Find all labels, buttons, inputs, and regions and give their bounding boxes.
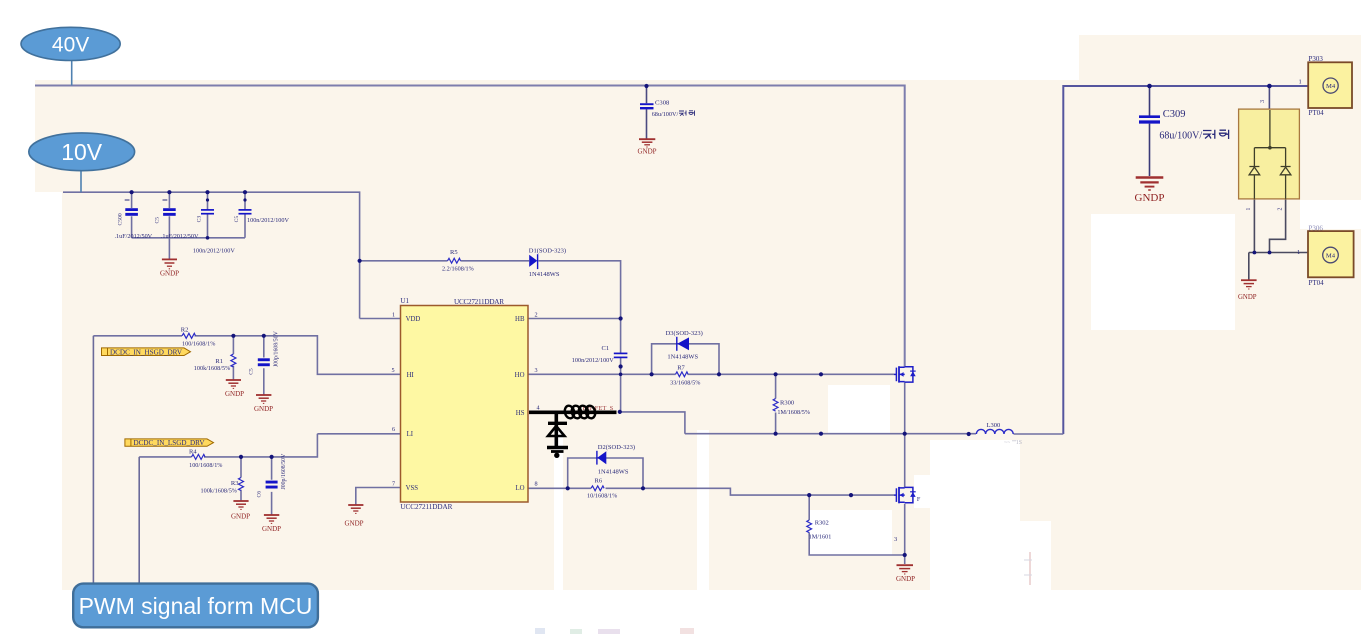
svg-text:P303: P303 bbox=[1309, 55, 1324, 63]
svg-text:100n/2012/100V: 100n/2012/100V bbox=[247, 217, 289, 224]
svg-text:D1(SOD-323): D1(SOD-323) bbox=[529, 247, 566, 254]
svg-text:R6: R6 bbox=[595, 477, 603, 484]
diode D3 1N4148WS bbox=[666, 330, 703, 360]
wire PWM vertical 2 bbox=[138, 457, 140, 584]
wire R302 leg bbox=[809, 495, 905, 555]
wire output top rail right bbox=[1063, 86, 1308, 434]
wire R1 leg bbox=[232, 336, 234, 380]
svg-text:HB: HB bbox=[515, 316, 525, 323]
svg-text:UCC27211DDAR: UCC27211DDAR bbox=[400, 503, 452, 511]
wire VSS stub bbox=[356, 488, 402, 506]
ground GNDP C6 bbox=[262, 515, 281, 533]
svg-text:C500: C500 bbox=[118, 213, 124, 225]
svg-text:F: F bbox=[917, 496, 921, 503]
svg-text:R5: R5 bbox=[450, 249, 458, 256]
svg-text:GNDP: GNDP bbox=[638, 148, 657, 156]
wire bridge gnd stem bbox=[1248, 253, 1250, 281]
wire VDD stub bbox=[360, 318, 402, 320]
svg-text:100k/1608/5%: 100k/1608/5% bbox=[194, 365, 230, 372]
wire HO net bbox=[528, 373, 894, 375]
svg-text:PT04: PT04 bbox=[1309, 109, 1325, 117]
svg-text:100k/1608/5%: 100k/1608/5% bbox=[201, 488, 237, 495]
wire PWM vertical 1 bbox=[92, 336, 94, 584]
svg-text:PWM signal form MCU: PWM signal form MCU bbox=[79, 593, 313, 619]
resistor R4 bbox=[189, 448, 222, 469]
svg-text:GNDP: GNDP bbox=[1238, 294, 1257, 301]
erased remnant marks bbox=[535, 552, 1032, 634]
svg-text:J00p/1608/50V: J00p/1608/50V bbox=[274, 330, 280, 367]
capacitor C1 bbox=[572, 345, 628, 364]
svg-text:DCDC_IN_LSGD_DRV: DCDC_IN_LSGD_DRV bbox=[134, 440, 205, 447]
node 40V power bubble bbox=[21, 27, 120, 85]
annotation black body-diode sketch bbox=[529, 405, 617, 458]
wire HS net bbox=[620, 412, 1063, 434]
svg-text:L300: L300 bbox=[987, 422, 1001, 429]
svg-text:GNDP: GNDP bbox=[225, 390, 244, 398]
svg-text:3: 3 bbox=[894, 536, 897, 543]
svg-text:GNDP: GNDP bbox=[231, 513, 250, 521]
svg-text:2.2/1608/1%: 2.2/1608/1% bbox=[442, 266, 474, 273]
resistor R300 bbox=[773, 399, 810, 416]
svg-text:DCDC_IN_HSGD_DRV: DCDC_IN_HSGD_DRV bbox=[110, 349, 182, 356]
ground GNDP cap bank bbox=[160, 259, 179, 277]
svg-text:100/1608/1%: 100/1608/1% bbox=[182, 340, 215, 347]
svg-text:68u/100V/: 68u/100V/ bbox=[652, 111, 679, 118]
ground GNDP bridge bbox=[1238, 280, 1257, 301]
capacitor C308 bbox=[640, 100, 695, 118]
svg-text:7: 7 bbox=[392, 481, 395, 488]
wire cap bank bottom rail bbox=[132, 237, 245, 239]
resistor R3 bbox=[201, 478, 244, 495]
svg-text:5: 5 bbox=[392, 367, 395, 374]
wire HI routing bbox=[93, 336, 401, 375]
svg-text:3: 3 bbox=[535, 367, 538, 374]
wire cap bank gnd stem bbox=[168, 238, 170, 259]
ground GNDP lower FET bbox=[896, 565, 915, 583]
svg-text:UCC27211DDAR: UCC27211DDAR bbox=[454, 298, 504, 306]
svg-text:1: 1 bbox=[1246, 208, 1252, 211]
node 10V power bubble bbox=[29, 133, 135, 192]
svg-text:1N4148WS: 1N4148WS bbox=[598, 468, 629, 475]
svg-text:100n/2012/100V: 100n/2012/100V bbox=[193, 248, 235, 255]
wire C1 vertical bbox=[620, 319, 622, 412]
wire PT04 lower pin bbox=[1249, 252, 1308, 254]
svg-text:C5: C5 bbox=[234, 216, 240, 223]
svg-text:M4: M4 bbox=[1326, 253, 1336, 260]
wire bridge bottom pins bbox=[1254, 199, 1285, 253]
wire LO net bbox=[528, 488, 894, 495]
svg-text:GNDP: GNDP bbox=[345, 520, 364, 528]
resistor R7 bbox=[670, 364, 700, 386]
wire C6 leg bbox=[271, 457, 273, 515]
net label DCDC_IN_LSGD_DRV bbox=[125, 439, 214, 447]
svg-text:40V: 40V bbox=[52, 33, 89, 56]
svg-text:GNDP: GNDP bbox=[896, 575, 915, 583]
svg-text:1M/1601: 1M/1601 bbox=[809, 534, 832, 541]
svg-text:6: 6 bbox=[392, 426, 395, 433]
capacitor C501 bbox=[155, 200, 199, 240]
diode pack D300 bridge box bbox=[1239, 100, 1300, 211]
svg-text:C5: C5 bbox=[249, 368, 255, 375]
svg-text:1M/1608/5%: 1M/1608/5% bbox=[777, 409, 810, 416]
resistor R302 bbox=[807, 519, 832, 540]
svg-text:LO: LO bbox=[515, 485, 524, 492]
svg-text:1: 1 bbox=[392, 312, 395, 319]
wire D2 bypass loop bbox=[568, 458, 643, 488]
svg-text:J00p/1608/50V: J00p/1608/50V bbox=[281, 453, 287, 490]
svg-text:8: 8 bbox=[535, 481, 538, 488]
transistor Q upper MOSFET bbox=[894, 366, 916, 382]
wire C5 leg bbox=[263, 336, 265, 395]
svg-text:VDD: VDD bbox=[406, 316, 421, 323]
svg-text:10/1608/1%: 10/1608/1% bbox=[587, 492, 617, 499]
resistor R5 bbox=[442, 249, 474, 273]
wire cap bank stems bbox=[132, 192, 245, 238]
svg-text:C309: C309 bbox=[1163, 109, 1186, 120]
wire R3 leg bbox=[240, 457, 242, 501]
svg-text:GNDP: GNDP bbox=[160, 270, 179, 278]
wire 10V rail bbox=[63, 192, 360, 318]
ground GNDP R3 bbox=[231, 501, 250, 521]
resistor R1 bbox=[194, 354, 236, 372]
svg-text:D3(SOD-323): D3(SOD-323) bbox=[666, 330, 703, 337]
svg-text:C1: C1 bbox=[602, 345, 610, 352]
svg-text:C5: C5 bbox=[155, 217, 161, 224]
svg-text:2: 2 bbox=[1277, 208, 1283, 211]
svg-text:R3: R3 bbox=[231, 480, 239, 487]
capacitor C500 bbox=[115, 200, 153, 240]
svg-text:R7: R7 bbox=[677, 364, 685, 371]
svg-text:.1uF/2012/50V: .1uF/2012/50V bbox=[161, 233, 199, 240]
svg-text:P306: P306 bbox=[1309, 224, 1324, 232]
svg-text:HO: HO bbox=[515, 372, 525, 379]
svg-text:100/1608/1%: 100/1608/1% bbox=[189, 462, 222, 469]
svg-text:GNDP: GNDP bbox=[1135, 192, 1165, 204]
inductor L300 bbox=[976, 422, 1022, 446]
connector P306 lower bbox=[1297, 224, 1354, 287]
svg-text:GNDP: GNDP bbox=[262, 525, 281, 533]
svg-text:~~ ''''1S: ~~ ''''1S bbox=[1004, 440, 1022, 446]
connector P303 bbox=[1299, 55, 1353, 117]
svg-text:100n/2012/100V: 100n/2012/100V bbox=[572, 357, 614, 364]
svg-text:1: 1 bbox=[1297, 249, 1300, 256]
wire upper FET source bbox=[904, 382, 906, 433]
wire HB stub bbox=[528, 318, 620, 320]
svg-text:3: 3 bbox=[1260, 100, 1266, 103]
svg-text:LI: LI bbox=[407, 431, 414, 438]
capacitor C4 bbox=[234, 210, 289, 224]
svg-text:C6: C6 bbox=[256, 491, 262, 498]
svg-text:R4: R4 bbox=[189, 448, 197, 455]
svg-text:2: 2 bbox=[535, 312, 538, 319]
svg-text:HI: HI bbox=[407, 372, 415, 379]
wire lower FET source bbox=[904, 504, 906, 564]
net label DCDC_IN_HSGD_DRV bbox=[102, 348, 191, 356]
svg-text:U1: U1 bbox=[400, 297, 409, 305]
ground GNDP C5 bbox=[254, 395, 273, 413]
capacitor C3 bbox=[193, 210, 235, 255]
svg-text:GNDP: GNDP bbox=[254, 405, 273, 413]
svg-text:R300: R300 bbox=[780, 400, 794, 407]
diode D1 1N4148WS bbox=[529, 247, 566, 278]
wire D3 bypass loop bbox=[652, 344, 719, 375]
svg-text:M4: M4 bbox=[1326, 83, 1336, 90]
svg-text:.1uF/2012/50V: .1uF/2012/50V bbox=[115, 233, 153, 240]
svg-text:4: 4 bbox=[537, 405, 540, 412]
resistor R2 bbox=[181, 326, 216, 347]
svg-text:1: 1 bbox=[1299, 79, 1302, 86]
wire C309 stem bbox=[1149, 86, 1151, 176]
wire bridge top pin bbox=[1268, 86, 1270, 110]
wire LI routing bbox=[139, 434, 402, 457]
svg-text:R302: R302 bbox=[815, 519, 829, 526]
op-amp U1 UCC27211DDAR body bbox=[400, 297, 528, 511]
svg-text:HS: HS bbox=[516, 410, 525, 417]
diode D2 1N4148WS bbox=[597, 444, 635, 475]
ground GNDP VSS bbox=[345, 505, 364, 528]
resistor R6 bbox=[587, 477, 617, 499]
annotation PWM signal form MCU bbox=[73, 584, 318, 628]
svg-text:C3: C3 bbox=[197, 216, 203, 223]
wire R300 leg bbox=[775, 374, 777, 433]
svg-text:VSS: VSS bbox=[406, 485, 419, 492]
ground GNDP C308 bbox=[638, 139, 657, 155]
svg-text:PT04: PT04 bbox=[1309, 279, 1325, 287]
svg-text:68u/100V/: 68u/100V/ bbox=[1159, 130, 1202, 141]
ground GNDP C309 bbox=[1135, 178, 1165, 205]
svg-text:1N4148WS: 1N4148WS bbox=[667, 353, 698, 360]
svg-text:D2(SOD-323): D2(SOD-323) bbox=[598, 444, 635, 451]
capacitor C309 bbox=[1139, 109, 1229, 142]
wire lower FET drain bbox=[904, 434, 906, 488]
wire R5 branch bbox=[360, 261, 621, 319]
svg-text:C308: C308 bbox=[655, 100, 670, 107]
wire 40V top rail bbox=[35, 86, 905, 367]
transistor Q lower MOSFET bbox=[894, 487, 916, 503]
capacitor C6 gate bbox=[256, 453, 287, 498]
wire C308 stem bbox=[646, 86, 648, 139]
svg-text:10V: 10V bbox=[61, 139, 103, 165]
svg-text:1N4148WS: 1N4148WS bbox=[529, 271, 560, 278]
svg-text:33/1608/5%: 33/1608/5% bbox=[670, 379, 700, 386]
ground GNDP R1 bbox=[225, 380, 244, 398]
svg-text:R2: R2 bbox=[181, 326, 189, 333]
capacitor C5 gate bbox=[249, 330, 280, 374]
